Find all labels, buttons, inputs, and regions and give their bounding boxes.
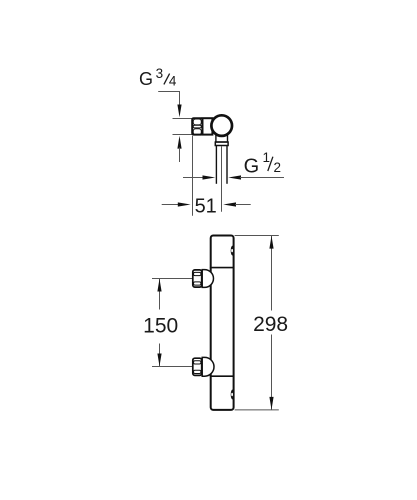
svg-text:3: 3 (156, 66, 164, 81)
svg-text:G: G (139, 69, 153, 89)
298 extension line top (235, 235, 279, 237)
G3/4 leader line (158, 92, 179, 107)
G 3/4 label (139, 66, 177, 89)
svg-text:G: G (244, 156, 260, 178)
top inlet nut (193, 270, 202, 287)
svg-text:1: 1 (263, 150, 271, 165)
ball joint (211, 115, 232, 136)
connector body between nut and ball (202, 118, 212, 134)
G3/4 arrow up (177, 136, 181, 149)
svg-text:150: 150 (143, 314, 178, 337)
150 extension line top (152, 278, 193, 280)
collar ring (215, 142, 228, 146)
svg-text:298: 298 (253, 313, 288, 336)
G1/2 dimension arrows (183, 175, 284, 179)
G 1/2 label (244, 150, 281, 178)
clip mark top (231, 246, 235, 256)
body top divider (210, 267, 235, 269)
neck below ball (215, 135, 217, 142)
298 extension line bottom (235, 409, 279, 411)
top inlet dome (202, 270, 213, 288)
body bottom divider (210, 375, 235, 377)
51 dimension arrows (162, 202, 251, 206)
svg-text:2: 2 (274, 160, 282, 175)
G3/4 extension lines (173, 118, 194, 120)
svg-text:4: 4 (169, 73, 177, 88)
mixer body (211, 236, 234, 410)
bottom inlet nut (193, 358, 202, 375)
G3/4 thread nut (192, 118, 202, 135)
298 dimension line (269, 236, 273, 410)
down pipe (215, 146, 217, 184)
svg-text:51: 51 (195, 195, 217, 217)
pipe axis / 51 right extension line (221, 146, 223, 212)
clip mark bottom (231, 390, 235, 400)
150 dimension line (157, 279, 161, 367)
bottom inlet dome (202, 357, 214, 376)
150 extension line bottom (152, 366, 193, 368)
G3/4 arrow down (177, 105, 181, 118)
51 extension line left (192, 136, 194, 216)
